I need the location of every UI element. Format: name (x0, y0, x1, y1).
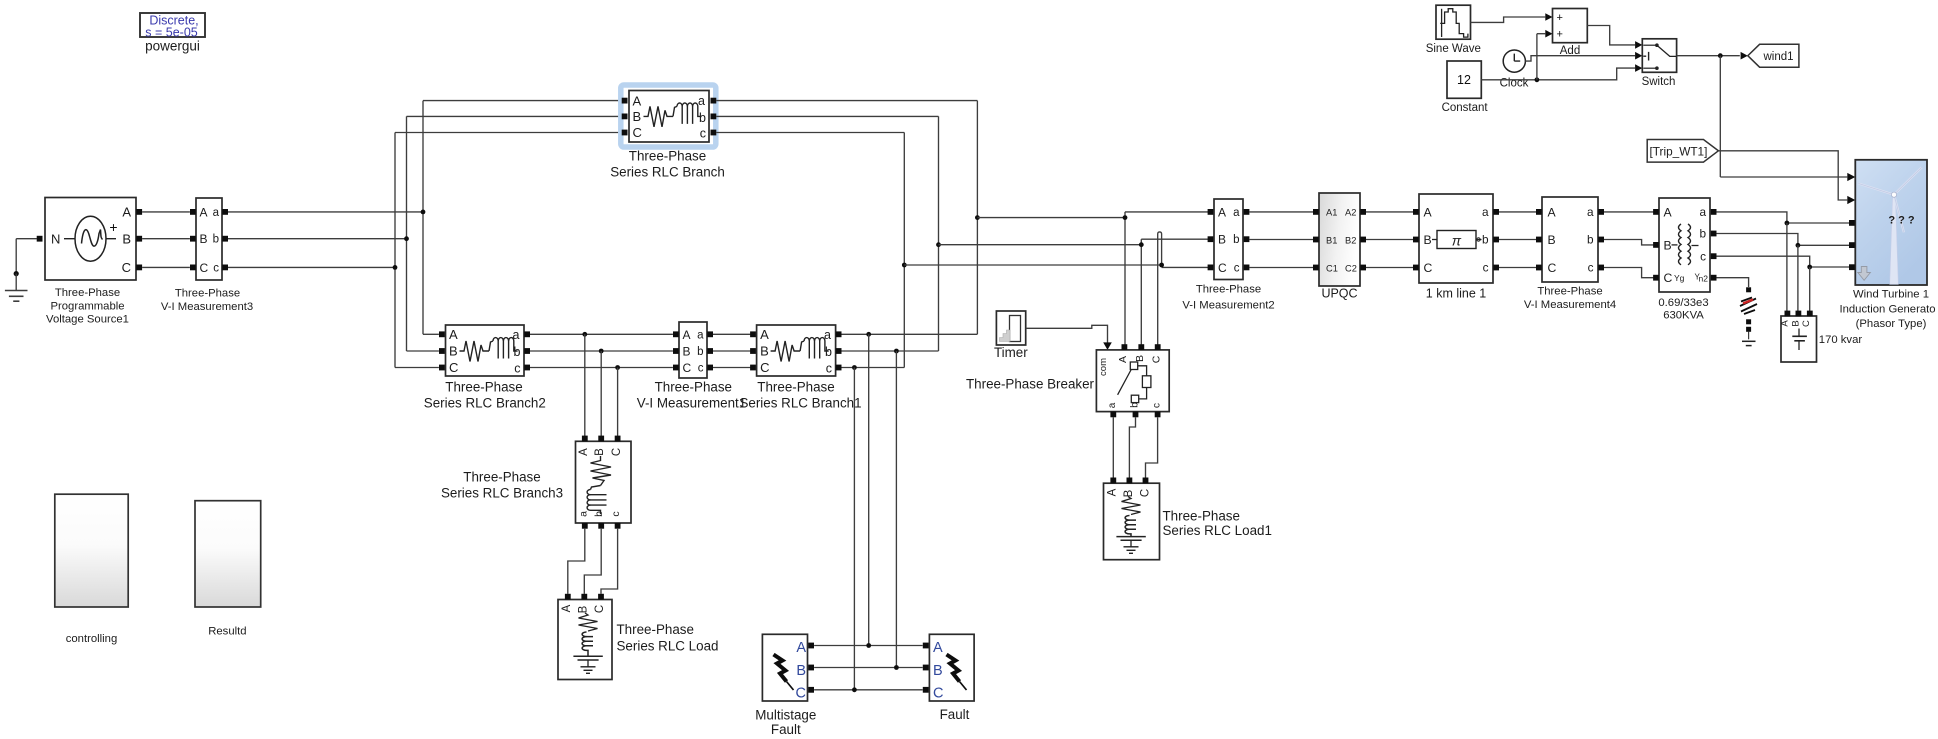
ground symbol (14, 271, 19, 276)
block Three-Phase V-I Measurement1 (679, 322, 707, 378)
svg-text:C: C (200, 261, 209, 275)
svg-text:C: C (611, 448, 623, 456)
svg-text:Wind Turbine 1: Wind Turbine 1 (1853, 289, 1929, 301)
block Switch (1642, 39, 1676, 73)
svg-text:n2: n2 (1699, 274, 1709, 284)
svg-text:+: + (1557, 29, 1563, 41)
svg-text:C: C (760, 360, 769, 375)
lightning icon (774, 655, 787, 682)
goto tag wind1 (1748, 44, 1799, 67)
svg-text:a: a (1107, 402, 1118, 408)
wire add to switch (1587, 26, 1635, 45)
svg-text:C: C (1218, 261, 1227, 275)
svg-text:B: B (200, 232, 208, 246)
wires down to branch2 (423, 333, 439, 335)
powergui block (140, 13, 205, 37)
svg-text:b: b (514, 345, 521, 359)
block Clock (1503, 50, 1525, 72)
left vertical bus C (394, 133, 396, 368)
svg-text:(Phasor Type): (Phasor Type) (1856, 318, 1927, 330)
turbine tower (1890, 196, 1899, 284)
wire sine to add (1471, 17, 1546, 22)
svg-text:s = 5e-05: s = 5e-05 (145, 25, 198, 39)
wire branch2 b (530, 350, 673, 352)
block Three-Phase Series RLC Load1 (1104, 483, 1160, 560)
block transformer 0.69/33e3 630KVA (1659, 198, 1710, 292)
wire net B to measurement2 (939, 244, 1142, 246)
port N (37, 236, 43, 242)
svg-text:C: C (683, 361, 692, 375)
svg-text:A1: A1 (1326, 208, 1337, 218)
svg-text:Three-Phase: Three-Phase (175, 288, 240, 300)
taps to branch3 (582, 332, 587, 337)
svg-text:? ? ?: ? ? ? (1888, 215, 1915, 227)
svg-text:B: B (760, 344, 769, 359)
block Three-Phase Series RLC Branch1 (757, 325, 836, 376)
svg-text:B: B (1218, 233, 1226, 247)
right vertical bus a (976, 101, 978, 335)
svg-text:+: + (109, 219, 117, 235)
block Three-Phase V-I Measurement3 (196, 198, 222, 280)
svg-text:c: c (213, 262, 219, 274)
svg-text:B: B (933, 663, 943, 679)
block Constant (1447, 61, 1481, 98)
turbine blades (1859, 167, 1922, 232)
svg-text:UPQC: UPQC (1321, 286, 1357, 300)
svg-text:C: C (1140, 489, 1152, 497)
svg-text:A: A (200, 205, 208, 219)
svg-text:B: B (1134, 355, 1146, 362)
svg-text:c: c (514, 361, 520, 375)
svg-text:Fault: Fault (771, 722, 801, 737)
wire breaker b to load1 (1129, 417, 1135, 480)
svg-text:A: A (1117, 356, 1129, 363)
wire fault bus C (814, 689, 923, 691)
svg-text:12: 12 (1457, 73, 1471, 87)
svg-text:a: a (1482, 205, 1489, 219)
svg-text:C: C (933, 686, 943, 702)
block Multistage Fault (762, 634, 807, 701)
svg-text:Three-Phase: Three-Phase (629, 149, 706, 164)
svg-text:B: B (1548, 233, 1556, 247)
svg-text:A: A (1664, 206, 1673, 220)
selection highlight (621, 85, 716, 147)
wires meas1 to branch1 (713, 333, 753, 335)
left vertical bus B (406, 116, 408, 351)
block Three-Phase Series RLC Load (558, 600, 612, 680)
svg-text:π: π (1452, 233, 1462, 249)
svg-text:Three-Phase: Three-Phase (655, 380, 732, 395)
svg-text:a: a (1587, 205, 1594, 219)
svg-text:A: A (796, 640, 806, 656)
wire branch b right (716, 115, 938, 117)
wire branch a right (716, 100, 977, 102)
grey down arrow (1858, 267, 1871, 281)
wire constant to switch (1481, 68, 1635, 80)
wire source B to measurement3 (142, 238, 190, 240)
wire source A to measurement3 (142, 211, 190, 213)
svg-text:B: B (449, 344, 458, 359)
svg-text:Sine Wave: Sine Wave (1426, 43, 1481, 55)
svg-text:b: b (1233, 234, 1239, 246)
svg-text:Series RLC Branch2: Series RLC Branch2 (424, 396, 546, 411)
svg-text:Three-Phase: Three-Phase (1537, 286, 1602, 298)
svg-text:b: b (1482, 233, 1489, 247)
svg-text:A: A (1548, 206, 1557, 220)
wires meas4 to transformer (1604, 211, 1654, 213)
right vertical bus c (903, 133, 905, 368)
svg-text:c: c (1588, 261, 1594, 275)
left vertical bus A (422, 101, 424, 335)
svg-text:C2: C2 (1345, 264, 1357, 274)
svg-text:C: C (1548, 261, 1557, 275)
svg-text:c: c (700, 126, 706, 140)
svg-text:0.69/33e3: 0.69/33e3 (1658, 297, 1708, 309)
svg-text:V-I Measurement1: V-I Measurement1 (637, 396, 746, 411)
svg-text:V-I Measurement2: V-I Measurement2 (1182, 299, 1274, 311)
wire branch3 b to load (584, 529, 601, 594)
svg-text:B: B (1424, 233, 1432, 247)
svg-text:b: b (1587, 233, 1594, 247)
wires meas2 to UPQC (1250, 211, 1316, 213)
branch constant to add (1535, 77, 1540, 82)
wire branch c right (716, 132, 904, 134)
from tag Trip_WT1 (1647, 140, 1718, 163)
svg-text:Y: Y (1695, 273, 1701, 282)
wire meas3 c to node (228, 266, 395, 268)
wire branch1 a (842, 333, 978, 335)
block 1 km line 1 (1419, 194, 1493, 283)
wire fault bus B (814, 667, 923, 669)
wire switch out to wind1 (1677, 55, 1740, 57)
svg-text:b: b (697, 346, 703, 358)
block Three-Phase V-I Measurement2 (1214, 199, 1243, 280)
svg-text:B: B (594, 448, 606, 456)
grounding branch (red) (1746, 287, 1751, 292)
svg-text:B: B (796, 663, 806, 679)
svg-text:B: B (578, 605, 590, 613)
lightning icon (947, 655, 960, 682)
block Three-Phase Series RLC Branch (629, 91, 709, 143)
svg-text:c: c (1700, 249, 1706, 263)
svg-text:Three-Phase: Three-Phase (1196, 284, 1261, 296)
svg-text:C: C (633, 125, 642, 140)
svg-text:B1: B1 (1326, 236, 1337, 246)
svg-text:Induction Generato: Induction Generato (1839, 304, 1935, 316)
wires UPQC to line (1366, 211, 1415, 213)
svg-text:Series RLC Load1: Series RLC Load1 (1163, 523, 1272, 538)
svg-text:A: A (760, 327, 769, 342)
wire timer to breaker com (1026, 325, 1108, 343)
wire trip to turbine (1718, 151, 1847, 200)
svg-text:b: b (1699, 227, 1706, 241)
svg-text:c: c (1483, 261, 1489, 275)
svg-text:A: A (1218, 205, 1226, 219)
svg-text:C: C (449, 360, 458, 375)
svg-text:A: A (1107, 488, 1119, 496)
wire fault bus A (814, 645, 923, 647)
svg-text:b: b (213, 234, 219, 246)
svg-text:C1: C1 (1326, 264, 1338, 274)
wire branch1 b (842, 350, 939, 352)
svg-text:Constant: Constant (1442, 102, 1489, 114)
svg-text:C: C (1424, 261, 1433, 275)
svg-text:Yg: Yg (1674, 273, 1685, 283)
svg-text:B: B (1664, 239, 1672, 253)
svg-text:b: b (593, 511, 605, 517)
svg-text:C: C (1151, 355, 1163, 363)
ports A B C (136, 209, 142, 215)
svg-text:a: a (697, 329, 704, 341)
block Three-Phase Series RLC Branch2 (446, 325, 525, 376)
svg-text:C: C (796, 686, 806, 702)
wire net C to measurement2 (904, 264, 1161, 266)
svg-text:A: A (122, 205, 131, 220)
svg-text:C: C (122, 260, 131, 275)
svg-text:Voltage Source1: Voltage Source1 (46, 314, 129, 326)
svg-text:B: B (1123, 489, 1135, 497)
svg-text:Timer: Timer (994, 345, 1028, 360)
svg-text:c: c (610, 511, 622, 516)
svg-text:A: A (633, 93, 642, 108)
wire xfmr a (1716, 212, 1852, 223)
wire xfmr n2 to grounding (1716, 278, 1748, 287)
svg-text:Resultd: Resultd (208, 626, 246, 638)
svg-text:B: B (122, 231, 131, 246)
wire to turbine wind input (1719, 56, 1721, 177)
wire clock to switch (1525, 56, 1635, 61)
svg-text:V-I Measurement3: V-I Measurement3 (161, 301, 253, 313)
block Sine Wave (1436, 5, 1471, 39)
svg-text:A: A (449, 327, 458, 342)
svg-text:A: A (933, 640, 943, 656)
svg-text:170 kvar: 170 kvar (1819, 334, 1863, 346)
wire branch3 a to load (568, 529, 585, 594)
wires line to meas4 (1499, 211, 1539, 213)
svg-text:wind1: wind1 (1762, 51, 1793, 63)
drops to fault bus (868, 334, 870, 645)
svg-text:C: C (1801, 320, 1812, 327)
wire branch1 c (842, 367, 905, 369)
block Timer (996, 311, 1025, 345)
svg-text:Series RLC Branch3: Series RLC Branch3 (441, 486, 563, 501)
svg-text:630KVA: 630KVA (1663, 309, 1704, 321)
wire xfmr c (1716, 256, 1852, 267)
capacitor 170 kvar (1781, 316, 1817, 362)
svg-text:+: + (1557, 12, 1563, 24)
svg-text:a: a (1233, 207, 1240, 219)
svg-text:Series RLC Load: Series RLC Load (617, 639, 719, 654)
svg-text:a: a (698, 94, 705, 108)
block Resultd (195, 501, 261, 607)
svg-text:a: a (1699, 205, 1706, 219)
svg-text:com: com (1098, 358, 1109, 376)
wire breaker a to load1 (1112, 417, 1114, 480)
wire branch3 c to load (601, 529, 618, 594)
svg-text:C: C (594, 605, 606, 613)
svg-text:A: A (1780, 320, 1791, 327)
svg-text:Three-Phase: Three-Phase (55, 287, 120, 299)
svg-text:Programmable: Programmable (50, 300, 124, 312)
svg-text:A: A (561, 604, 573, 612)
block controlling (55, 494, 128, 607)
breaker switch icon (1130, 362, 1137, 370)
svg-text:Series RLC Branch: Series RLC Branch (610, 165, 725, 180)
right vertical bus b (938, 116, 940, 351)
svg-text:Three-Phase Breaker: Three-Phase Breaker (966, 376, 1095, 391)
svg-text:Fault: Fault (940, 707, 970, 722)
block Three-Phase V-I Measurement4 (1542, 197, 1598, 282)
svg-text:C: C (1664, 271, 1673, 285)
block Add (1553, 9, 1588, 43)
svg-text:c: c (1234, 262, 1240, 274)
wire net A to measurement2 (977, 217, 1125, 219)
svg-text:1 km line 1: 1 km line 1 (1426, 287, 1486, 301)
svg-text:N: N (51, 231, 60, 246)
wire meas3 b to node (228, 238, 407, 240)
svg-text:Three-Phase: Three-Phase (617, 622, 694, 637)
block Fault (929, 634, 974, 701)
svg-text:A: A (683, 328, 691, 342)
wire xfmr b (1716, 234, 1852, 246)
svg-text:Three-Phase: Three-Phase (463, 470, 540, 485)
svg-text:Three-Phase: Three-Phase (757, 380, 834, 395)
svg-text:A: A (1424, 206, 1433, 220)
svg-text:V-I Measurement4: V-I Measurement4 (1524, 299, 1616, 311)
svg-text:b: b (699, 111, 706, 125)
block Three-Phase Series RLC Branch3 (576, 441, 632, 523)
svg-text:Three-Phase: Three-Phase (1163, 509, 1240, 524)
svg-text:c: c (698, 363, 704, 375)
wires up to top branch (423, 100, 622, 102)
svg-text:[Trip_WT1]: [Trip_WT1] (1650, 144, 1708, 158)
svg-text:B2: B2 (1345, 236, 1356, 246)
svg-text:B: B (1791, 320, 1802, 326)
svg-text:Three-Phase: Three-Phase (445, 380, 522, 395)
wire branch2 a (530, 333, 673, 335)
junction nodes (975, 215, 980, 220)
voltage source block Three-Phase Programmable Voltage Source1 (45, 198, 136, 281)
svg-text:A: A (578, 448, 590, 456)
svg-text:a: a (213, 207, 220, 219)
svg-text:Switch: Switch (1642, 76, 1676, 88)
wire branch2 c (530, 367, 673, 369)
svg-text:a: a (578, 511, 590, 517)
svg-text:b: b (825, 345, 832, 359)
svg-text:A2: A2 (1345, 208, 1356, 218)
transformer coils (1679, 224, 1682, 265)
junction nodes (421, 210, 426, 215)
svg-text:powergui: powergui (145, 39, 200, 54)
wire breaker c to load1 (1146, 417, 1158, 480)
svg-text:B: B (683, 345, 691, 359)
wire N to ground (16, 238, 37, 240)
svg-text:controlling: controlling (66, 633, 118, 645)
block Three-Phase Breaker (1096, 350, 1169, 412)
svg-text:B: B (633, 109, 642, 124)
svg-text:Series RLC Branch1: Series RLC Branch1 (739, 396, 861, 411)
svg-text:c: c (826, 361, 832, 375)
block UPQC (1319, 193, 1360, 286)
wire meas3 a to node (228, 211, 423, 213)
wire source C to measurement3 (142, 266, 190, 268)
svg-text:Multistage: Multistage (755, 708, 816, 723)
block Wind Turbine 1 Induction Generator (1855, 160, 1927, 285)
svg-text:c: c (1152, 403, 1163, 408)
